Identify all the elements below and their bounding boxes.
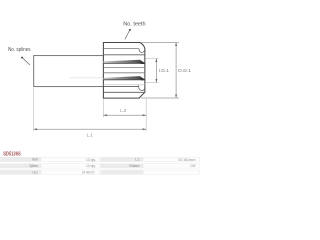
leader line No. splines <box>22 58 29 65</box>
dimension L.2 <box>103 114 146 116</box>
dimension O.D.1 <box>175 43 177 99</box>
svg-text:I.D.1: I.D.1 <box>159 68 170 73</box>
svg-text:57.80mm: 57.80mm <box>178 158 195 162</box>
gear tooth wedge top band <box>103 60 144 64</box>
svg-text:Teeth: Teeth <box>32 158 38 162</box>
table row1 value cell 57.80mm <box>144 157 200 162</box>
gear tooth line y92.3 <box>103 91 144 93</box>
gear tooth line y72.8 <box>103 72 144 74</box>
svg-text:10 qty.: 10 qty. <box>86 164 96 168</box>
svg-text:CW: CW <box>190 164 196 168</box>
gear head outline <box>103 43 144 99</box>
table row1 label cell Teeth <box>0 157 41 162</box>
svg-text:13 qty.: 13 qty. <box>86 158 96 162</box>
table row2 label cell Splines <box>0 163 41 168</box>
table row1 label cell L.1 <box>100 157 143 162</box>
svg-text:Rotation: Rotation <box>130 164 140 168</box>
svg-text:O.D.1: O.D.1 <box>178 68 192 73</box>
table row3 value cell right empty <box>144 170 200 175</box>
svg-text:L.2: L.2 <box>120 108 127 113</box>
dimension L.1 <box>34 128 147 130</box>
gear tooth wedge bottom bottom line <box>103 79 144 81</box>
gear tooth wedge bottom tail <box>139 77 145 81</box>
leader dot No. splines <box>21 57 23 59</box>
gear tooth line y84.8 light <box>103 84 144 86</box>
extension line OD1 bottom <box>141 97 179 99</box>
table row2 label cell Rotation <box>100 163 143 168</box>
svg-text:No. teeth: No. teeth <box>123 21 145 27</box>
svg-text:Splines: Splines <box>29 164 38 168</box>
gear tooth line y86.4 <box>103 85 138 87</box>
svg-text:L.1: L.1 <box>87 133 94 138</box>
gear tooth line y54.8 <box>103 54 144 56</box>
gear tooth wedge top bottom line <box>103 63 144 65</box>
extension line right shared <box>145 99 147 131</box>
gear top curl <box>139 49 145 53</box>
table row3 value cell 34.40mm <box>42 170 100 175</box>
table row2 value cell CW <box>144 164 200 169</box>
leader dot No. teeth <box>129 29 131 31</box>
table row3 label cell right empty <box>100 170 143 175</box>
gear tooth wedge top tail <box>139 60 145 64</box>
extension line ID1 top <box>146 58 159 60</box>
gear tooth line y67.6 <box>103 67 144 69</box>
gear tooth wedge bottom band <box>103 76 144 80</box>
svg-text:34.40mm: 34.40mm <box>82 171 95 175</box>
extension line ID1 bottom <box>146 82 159 84</box>
svg-text:I.D.1: I.D.1 <box>32 171 38 175</box>
shaft body <box>34 56 104 87</box>
extension line L2 left <box>102 99 104 117</box>
dimension I.D.1 <box>155 59 157 83</box>
svg-text:SD5136S: SD5136S <box>3 152 21 158</box>
extension line L1 left <box>33 88 35 132</box>
gear bottom curl <box>139 85 145 90</box>
svg-text:No. splines: No. splines <box>8 47 31 53</box>
svg-text:L.1: L.1 <box>135 158 140 162</box>
shaft faint feature line <box>70 77 103 79</box>
gear tooth line y48.6 <box>103 48 139 50</box>
leader line No. teeth <box>125 30 130 39</box>
table row1 value cell 13 qty <box>42 157 100 162</box>
table row3 label cell I.D.1 <box>0 170 41 175</box>
table row2 value cell 10 qty <box>42 164 100 169</box>
extension line OD1 top <box>141 42 179 44</box>
